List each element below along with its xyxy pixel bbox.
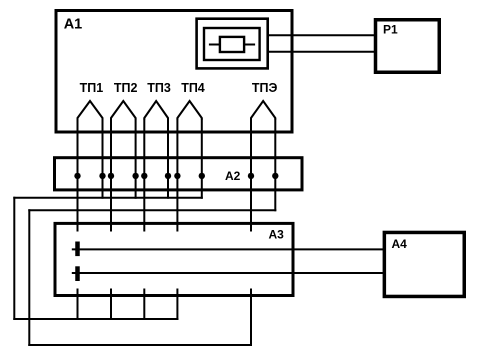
thermocouple TP3 symbol	[144, 101, 168, 120]
box A4 (measuring instrument)	[384, 232, 464, 296]
svg-text:ТП4: ТП4	[181, 81, 205, 95]
wire TPE left leg lower stub	[250, 289, 252, 347]
wire A3 to A4 upper	[72, 248, 384, 250]
wire TP2 left leg upper	[110, 119, 112, 232]
box P1 (power regulator)	[376, 20, 440, 73]
wire heater to P1 lower	[268, 51, 375, 53]
wire TP2 right leg	[135, 119, 137, 199]
resistor R (heater element)	[220, 37, 244, 52]
junction dot TP4 right	[199, 173, 205, 179]
resistor lead left	[209, 44, 220, 46]
junction dot TP3 left	[141, 173, 147, 179]
box A3 (thermostat)	[55, 223, 293, 295]
box A2 (switch unit)	[55, 158, 303, 190]
svg-text:А4: А4	[392, 237, 408, 251]
junction dot TP1 left	[74, 173, 80, 179]
heater outer rect	[197, 19, 268, 69]
wire TP3 left leg lower stub	[143, 289, 145, 321]
junction dot TP3 right	[165, 173, 171, 179]
wire TPE right leg	[274, 119, 276, 212]
wire TP4 left leg upper	[176, 119, 178, 232]
heater inner rect	[204, 28, 260, 60]
box A1 (thermostat/furnace unit)	[56, 11, 292, 133]
terminal bar lower (on wire to A4)	[75, 266, 80, 281]
bus 1 left vertical	[13, 197, 15, 320]
wire A3 to A4 lower	[72, 272, 384, 274]
terminal bar upper (on wire to A4)	[75, 242, 80, 257]
junction dot TP2 left	[108, 173, 114, 179]
wire TP1 left leg upper	[77, 119, 79, 232]
thermocouple TP2 symbol	[111, 101, 136, 120]
svg-text:А1: А1	[64, 17, 83, 33]
junction dot TP2 right	[132, 173, 138, 179]
svg-text:ТП2: ТП2	[114, 81, 138, 95]
svg-text:А3: А3	[269, 228, 285, 242]
junction dot TP4 left	[174, 173, 180, 179]
svg-text:А2: А2	[225, 169, 241, 183]
wire TP1 right leg	[102, 119, 104, 199]
wire TP1 left leg lower stub	[77, 289, 79, 321]
resistor lead right	[244, 44, 255, 46]
thermocouple TP4 symbol	[177, 101, 201, 120]
bus 2 bottom horizontal	[28, 344, 252, 346]
junction dot TP1 right	[99, 173, 105, 179]
svg-text:ТП1: ТП1	[80, 81, 104, 95]
junction dot TPE right	[272, 173, 278, 179]
junction dot TPE left	[248, 173, 254, 179]
wire TP2 left leg lower stub	[110, 289, 112, 321]
bus 1 horizontal (TP right legs common)	[13, 197, 203, 199]
thermocouple TPE symbol	[251, 101, 275, 120]
thermocouple TP1 symbol	[78, 101, 103, 120]
wire TP3 right leg	[167, 119, 169, 199]
svg-text:ТПЭ: ТПЭ	[252, 81, 278, 95]
wire heater to P1 upper	[268, 34, 375, 36]
wire TPE left leg upper	[250, 119, 252, 232]
svg-text:Р1: Р1	[383, 23, 398, 37]
wire TP4 left leg lower stub	[176, 289, 178, 321]
wire TP4 right leg	[201, 119, 203, 199]
bus 1 bottom horizontal	[13, 318, 178, 320]
bus 2 horizontal (TPE common)	[28, 209, 276, 211]
svg-text:ТП3: ТП3	[147, 81, 171, 95]
wire TP3 left leg upper	[143, 119, 145, 232]
bus 2 left vertical	[28, 209, 30, 346]
